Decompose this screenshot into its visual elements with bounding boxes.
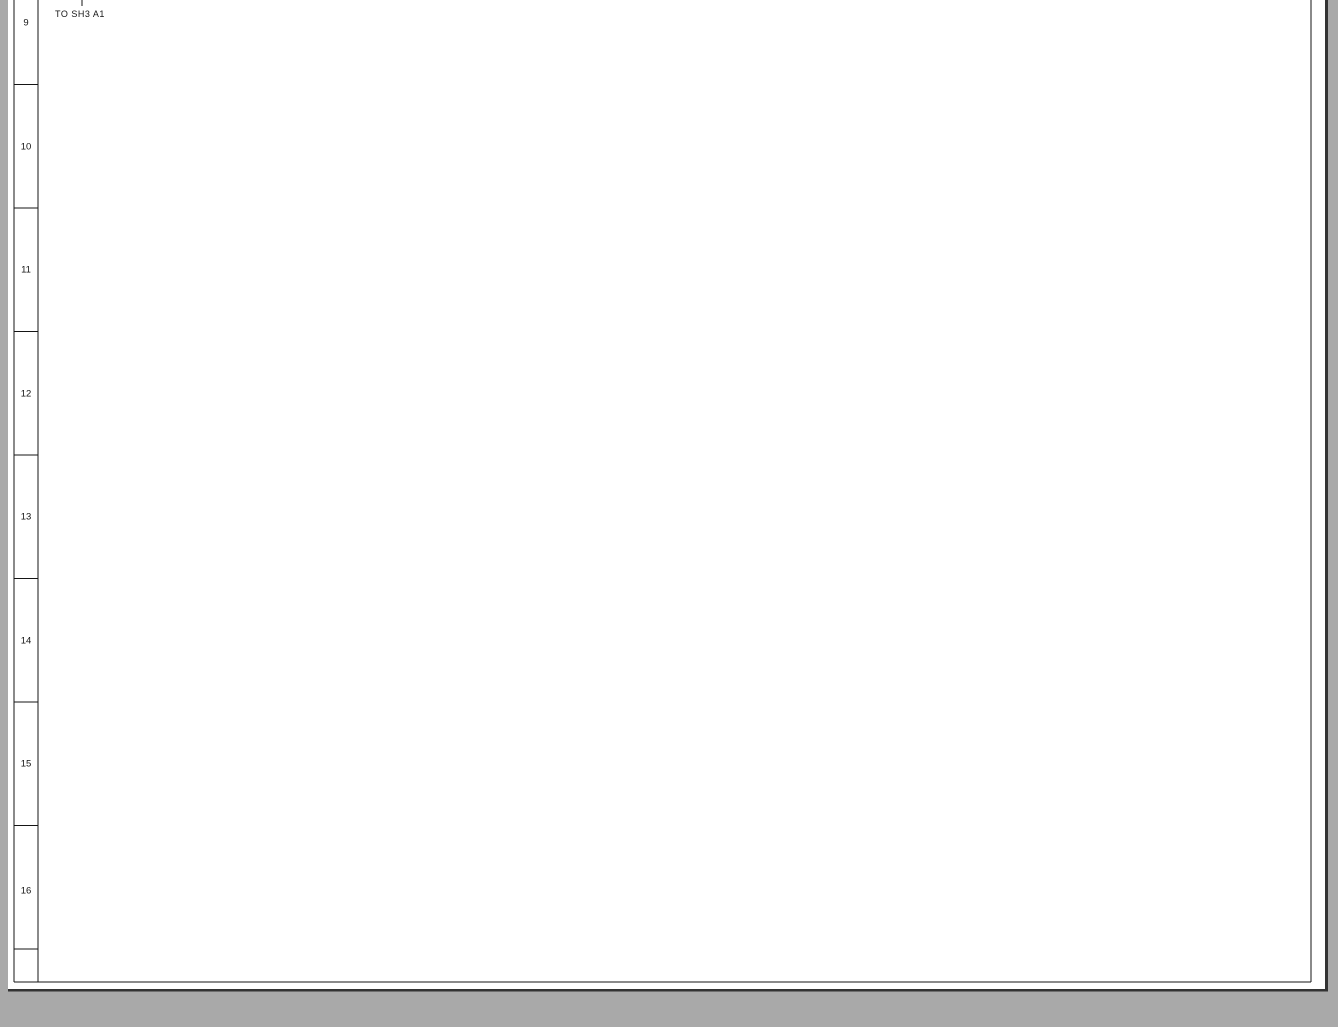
svg-text:9: 9 (23, 18, 28, 29)
drawing frame right border (1310, 0, 1312, 982)
svg-text:16: 16 (21, 886, 32, 897)
row zone ticks (14, 84, 38, 86)
svg-text:TO SH3 A1: TO SH3 A1 (55, 9, 105, 19)
drawing frame left border (13, 0, 15, 982)
svg-text:15: 15 (21, 759, 32, 770)
svg-text:11: 11 (21, 265, 31, 276)
wire stub to SH3 A1 (81, 0, 83, 6)
svg-text:12: 12 (21, 389, 32, 400)
svg-text:10: 10 (21, 142, 32, 153)
svg-text:14: 14 (21, 636, 32, 647)
svg-text:13: 13 (21, 512, 32, 523)
